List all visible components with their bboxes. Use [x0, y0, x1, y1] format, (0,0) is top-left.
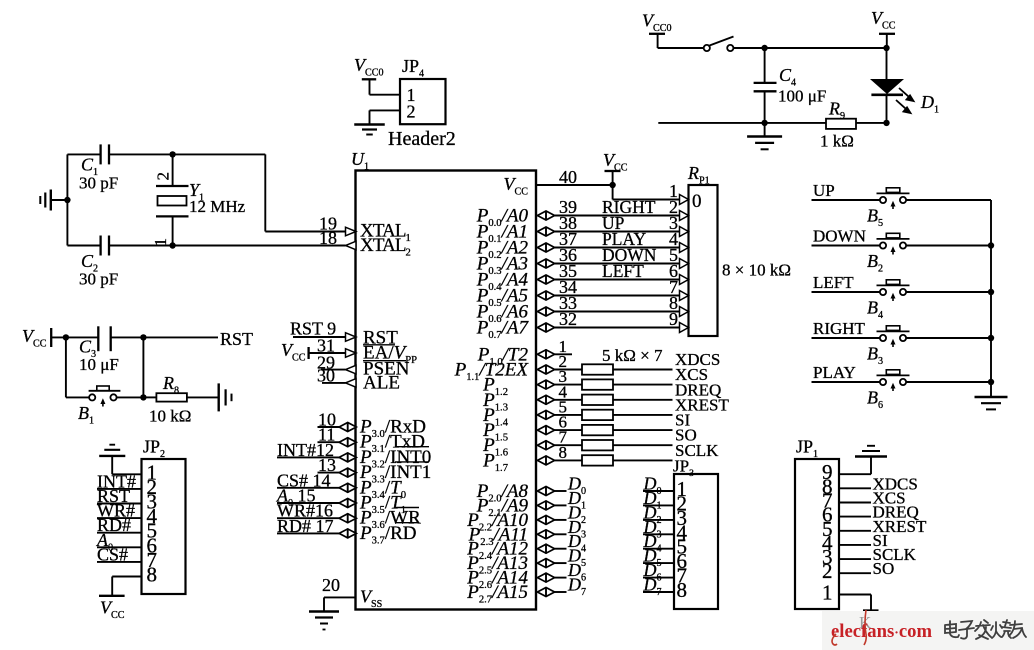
- resistor (5k #6): [582, 440, 613, 450]
- svg-text:RD# 17: RD# 17: [277, 516, 334, 536]
- svg-text:C4: C4: [779, 65, 796, 89]
- wire: [612, 185, 614, 200]
- pushbutton B4 (LEFT): [812, 291, 881, 293]
- JP1 pin 5: [839, 530, 871, 532]
- svg-text:5 kΩ × 7: 5 kΩ × 7: [602, 346, 663, 365]
- svg-text:P3.7/RD: P3.7/RD: [359, 523, 417, 547]
- wire: [658, 47, 704, 49]
- pushbutton B1: [66, 396, 89, 398]
- svg-text:B5: B5: [867, 206, 883, 230]
- pin Vcc (40) wire: [536, 184, 613, 186]
- svg-text:SO: SO: [873, 559, 895, 578]
- resistor (5k #5): [582, 425, 613, 435]
- wire: [613, 444, 673, 446]
- svg-text:32: 32: [559, 309, 577, 329]
- svg-text:1: 1: [669, 181, 678, 201]
- wire: [613, 399, 673, 401]
- pin P2.0 (21): [537, 487, 554, 496]
- pin P3.3 (13): [318, 472, 340, 474]
- node A (XTAL1 net): [169, 151, 175, 157]
- JP1 pin 2: [839, 572, 871, 574]
- ground: [51, 199, 68, 201]
- pin P3.2 (12): [277, 456, 340, 458]
- node: [140, 394, 146, 400]
- wire: [66, 154, 68, 245]
- svg-text:VCC: VCC: [22, 326, 47, 350]
- node: [988, 379, 994, 385]
- pushbutton B6 (PLAY): [812, 381, 881, 383]
- node B (XTAL2 net): [169, 242, 175, 248]
- pin P1.6 (7): [537, 441, 554, 450]
- overline WR: [395, 507, 419, 509]
- resistor (5k #7): [582, 455, 613, 465]
- wire: [142, 337, 144, 397]
- svg-text:VCC: VCC: [603, 150, 628, 174]
- JP1 pin 9: [839, 473, 871, 475]
- watermark chinese characters: [945, 620, 1026, 639]
- pin P1.4 (5): [537, 410, 554, 419]
- pin P0.0 (39): [537, 211, 554, 220]
- ground (buttons): [990, 382, 992, 397]
- svg-text:U1: U1: [351, 149, 369, 173]
- pin P3.5 (15): [277, 502, 340, 504]
- svg-text:LEFT: LEFT: [602, 261, 644, 281]
- pin P0.4 (35): [537, 275, 554, 284]
- wire: [370, 94, 401, 96]
- svg-text:ALE: ALE: [363, 373, 400, 394]
- svg-text:RST: RST: [220, 329, 253, 349]
- node: [988, 335, 994, 341]
- pin P3.6 (16): [277, 517, 340, 519]
- ground (JP4): [354, 123, 385, 125]
- node (ground junction): [64, 197, 70, 203]
- wire RST to JP2 pin 3: [97, 503, 142, 505]
- wire: [51, 336, 98, 338]
- pin P2.4 (25): [537, 544, 554, 553]
- svg-text:9: 9: [669, 309, 678, 329]
- pin P1.5 (6): [537, 426, 554, 435]
- svg-text:10 kΩ: 10 kΩ: [149, 407, 191, 426]
- svg-text:B1: B1: [78, 403, 94, 427]
- svg-text:JP4: JP4: [402, 56, 424, 80]
- capacitor C3: [97, 326, 99, 351]
- svg-text:100 μF: 100 μF: [778, 87, 826, 106]
- wire: [613, 369, 673, 371]
- JP1 pin 6: [839, 516, 871, 518]
- wire: [112, 473, 141, 475]
- wire: [613, 429, 673, 431]
- pin P3.4 (14): [277, 487, 340, 489]
- pin P0.5 (34): [537, 291, 554, 300]
- svg-text:LEFT: LEFT: [813, 273, 854, 292]
- ground (JP1 pin9): [870, 457, 872, 475]
- pushbutton B3 (RIGHT): [812, 337, 881, 339]
- resistor R9: [826, 119, 856, 129]
- node: [883, 45, 889, 51]
- svg-text:30 pF: 30 pF: [79, 174, 118, 193]
- overline RD: [395, 522, 418, 524]
- node: [988, 242, 994, 248]
- pin P2.7 (28): [537, 588, 554, 597]
- svg-text:CS#: CS#: [97, 544, 128, 564]
- svg-text:0: 0: [692, 191, 702, 212]
- pin P1.1 (2): [537, 365, 554, 374]
- ground (C4): [764, 123, 766, 136]
- pin P0.2 (37): [537, 243, 554, 252]
- node: [140, 334, 146, 340]
- terminal (JP1 pin1): [870, 595, 872, 611]
- svg-text:8: 8: [559, 443, 568, 462]
- wire A0 to JP2 pin 6: [97, 546, 142, 548]
- ground (Vss): [323, 597, 325, 611]
- pin P3.7 (17): [277, 532, 340, 534]
- pin P2.1 (22): [537, 501, 554, 510]
- svg-text:8: 8: [677, 578, 688, 602]
- svg-text:RP1: RP1: [687, 163, 710, 187]
- pin P1.0 (1): [537, 350, 554, 359]
- resistor (5k #3): [582, 395, 613, 405]
- svg-text:B4: B4: [867, 298, 883, 322]
- wire: [765, 47, 887, 49]
- pin P2.2 (23): [537, 515, 554, 524]
- overline INT0: [395, 446, 429, 448]
- wire D5 to JP3 pin 6: [643, 562, 674, 564]
- ground (R8): [217, 383, 219, 411]
- svg-text:Header2: Header2: [388, 128, 456, 150]
- svg-text:20: 20: [322, 575, 340, 595]
- wire (gnd rail): [658, 122, 826, 124]
- wire INT# to JP2 pin 2: [97, 488, 142, 490]
- wire: [733, 47, 764, 49]
- pin P3.1 (11): [318, 441, 340, 443]
- svg-text:B2: B2: [867, 251, 883, 275]
- node: [63, 334, 69, 340]
- svg-text:DOWN: DOWN: [813, 227, 866, 246]
- svg-text:1 kΩ: 1 kΩ: [820, 132, 854, 151]
- svg-text:VCC: VCC: [504, 174, 529, 198]
- wire: [111, 336, 218, 338]
- wire D2 to JP3 pin 3: [643, 519, 674, 521]
- node: [883, 120, 889, 126]
- node: [761, 120, 767, 126]
- svg-text:B3: B3: [867, 344, 883, 368]
- svg-text:R8: R8: [162, 373, 179, 397]
- power Vcc (pin 40): [605, 170, 621, 172]
- svg-text:VCC: VCC: [871, 8, 896, 32]
- svg-text:UP: UP: [813, 181, 835, 200]
- JP1 pin 1: [839, 594, 871, 596]
- pin P2.6 (27): [537, 573, 554, 582]
- wire D3 to JP3 pin 4: [643, 533, 674, 535]
- wire: [613, 384, 673, 386]
- pin P2.3 (24): [537, 530, 554, 539]
- overline INT1: [395, 461, 429, 463]
- ground (JP2): [109, 444, 115, 446]
- svg-text:12 MHz: 12 MHz: [189, 197, 246, 216]
- svg-text:10 μF: 10 μF: [79, 355, 119, 374]
- wire CS# to JP2 pin 7: [97, 561, 142, 563]
- wire D4 to JP3 pin 5: [643, 548, 674, 550]
- svg-text:8 × 10 kΩ: 8 × 10 kΩ: [722, 261, 791, 280]
- svg-text:VCC: VCC: [100, 598, 125, 622]
- LED arrows: [896, 88, 914, 113]
- power Vcc (JP2): [99, 595, 125, 597]
- wire: [65, 337, 67, 397]
- wire (button bus): [990, 200, 992, 382]
- svg-text:VSS: VSS: [360, 587, 382, 611]
- wire: [613, 459, 673, 461]
- svg-text:RIGHT: RIGHT: [813, 319, 866, 338]
- wire D1 to JP3 pin 2: [643, 504, 674, 506]
- pin Vss (20) wire: [324, 596, 356, 598]
- wire D0 to JP3 pin 1: [643, 490, 674, 492]
- node: [761, 45, 767, 51]
- svg-text:40: 40: [559, 167, 577, 187]
- svg-text:2: 2: [154, 172, 173, 181]
- pushbutton B2 (DOWN): [812, 245, 881, 247]
- svg-text:VCC0: VCC0: [642, 11, 672, 35]
- wire: [370, 109, 401, 111]
- svg-text:8: 8: [147, 563, 158, 587]
- svg-text:elecfans·com: elecfans·com: [831, 621, 932, 642]
- wire WR# to JP2 pin 4: [97, 517, 142, 519]
- wire D6 to JP3 pin 7: [643, 577, 674, 579]
- pin P0.6 (33): [537, 307, 554, 316]
- wire: [613, 414, 673, 416]
- wire: [109, 245, 346, 247]
- wire Vcc to JP2 pin 8: [112, 576, 141, 578]
- wire: [264, 154, 266, 231]
- JP1 pin 4: [839, 544, 871, 546]
- JP1 pin 8: [839, 487, 871, 489]
- capacitor C4: [764, 48, 766, 83]
- node: [988, 289, 994, 295]
- svg-text:PLAY: PLAY: [813, 363, 856, 382]
- capacitor C2: [67, 245, 100, 247]
- pin P0.3 (36): [537, 259, 554, 268]
- capacitor C1: [67, 153, 100, 155]
- pin P0.1 (38): [537, 227, 554, 236]
- wire: [173, 153, 266, 155]
- svg-text:P0.7/A7: P0.7/A7: [476, 318, 530, 342]
- pin P3.0 (10): [318, 426, 340, 428]
- watermark background: [822, 611, 1034, 650]
- wire D7 to JP3 pin 8: [643, 591, 674, 593]
- watermark red squiggle: [832, 610, 866, 645]
- pin P2.5 (26): [537, 559, 554, 568]
- resistor (5k #2): [582, 379, 613, 389]
- svg-text:VCC0: VCC0: [354, 55, 384, 79]
- node (Vcc/RP1): [609, 182, 615, 188]
- svg-text:P2.7/A15: P2.7/A15: [466, 582, 528, 606]
- LED D1: [886, 48, 888, 79]
- svg-text:R9: R9: [828, 99, 845, 123]
- svg-text:XTAL2: XTAL2: [360, 235, 411, 259]
- pushbutton B5 (UP): [812, 199, 881, 201]
- resistor (5k #4): [582, 410, 613, 420]
- svg-text:JP1: JP1: [796, 437, 818, 461]
- wire: [265, 231, 345, 233]
- crystal Y1: [172, 154, 174, 186]
- JP1 pin 3: [839, 558, 871, 560]
- resistor R8: [143, 396, 156, 398]
- svg-text:D1: D1: [920, 92, 939, 116]
- resistor (5k #1): [582, 364, 613, 374]
- switch S1: [704, 45, 710, 51]
- svg-text:VCC: VCC: [281, 340, 306, 364]
- svg-text:B6: B6: [867, 388, 883, 412]
- svg-text:2: 2: [407, 102, 416, 122]
- wire RD# to JP2 pin 5: [97, 532, 142, 534]
- JP1 pin 7: [839, 502, 871, 504]
- svg-text:JP2: JP2: [143, 437, 165, 461]
- pin P1.7 (8): [537, 456, 554, 465]
- svg-text:18: 18: [319, 228, 337, 248]
- pin P1.3 (4): [537, 395, 554, 404]
- pin P0.7 (32): [537, 323, 554, 332]
- svg-text:1: 1: [822, 581, 833, 605]
- pin P1.2 (3): [537, 380, 554, 389]
- op-amp U1 (MCU 8051): [356, 171, 537, 610]
- svg-text:30 pF: 30 pF: [79, 270, 118, 289]
